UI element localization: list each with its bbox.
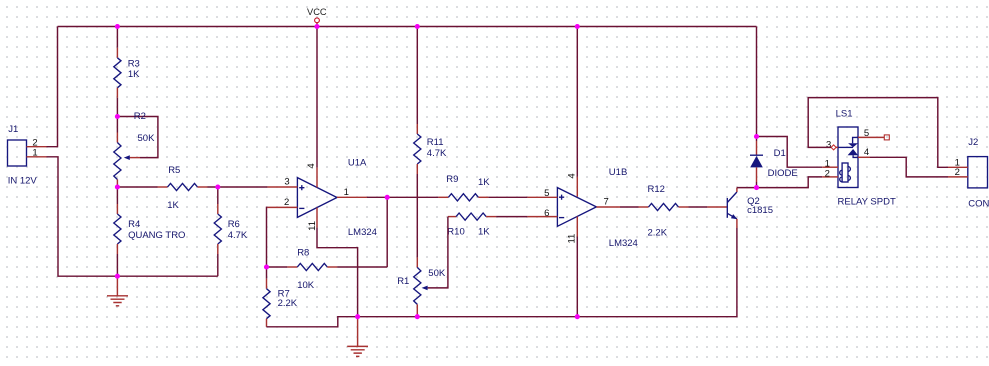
resistor R3 (114, 27, 140, 117)
svg-text:6: 6 (544, 208, 549, 219)
svg-text:2: 2 (284, 197, 289, 208)
svg-text:2.2K: 2.2K (278, 298, 298, 309)
wire U1A pin2 feedback drop (266, 207, 269, 267)
pin 4 stub relay (858, 156, 870, 158)
svg-text:U1B: U1B (609, 167, 627, 178)
svg-text:3: 3 (826, 140, 831, 151)
op-amp U1B (527, 167, 637, 249)
pin 5 stub relay (858, 136, 884, 138)
junction R4 bottom / ground (115, 274, 120, 279)
pin 1 of J2 (948, 166, 968, 168)
minus sign U1A (299, 207, 304, 209)
wire R10 left drop to R1 wiper (428, 217, 448, 288)
potentiometer R2 (114, 111, 158, 187)
wire J1 pin1 down rail and bottom-left run (47, 157, 218, 276)
base bar Q2 (726, 198, 728, 218)
wire left rail from J1 pin2 up to top rail (47, 27, 58, 147)
svg-text:LS1: LS1 (836, 108, 853, 119)
pin 6 stub U1B (527, 216, 557, 218)
pin 2 of J2 (948, 176, 968, 178)
wire Q2 collector to D1 junction (737, 187, 757, 189)
wire U1B pin11 to bottom rail (576, 237, 578, 317)
svg-text:J1: J1 (8, 124, 18, 135)
VCC power symbol (307, 7, 327, 26)
junction R1 bottom (415, 314, 420, 319)
ground left (107, 276, 128, 306)
junction R11 top (415, 24, 420, 29)
wire R3 top (116, 27, 118, 48)
svg-text:R12: R12 (648, 184, 665, 195)
svg-text:1K: 1K (128, 69, 140, 80)
op-amp U1A (267, 157, 377, 238)
svg-text:RELAY SPDT: RELAY SPDT (838, 197, 896, 208)
svg-text:2.2K: 2.2K (648, 228, 668, 239)
pin 2 stub relay (822, 176, 838, 178)
wire U1A pin4 to VCC rail (316, 27, 318, 168)
svg-text:4: 4 (864, 147, 869, 158)
wire bottom rail (358, 228, 737, 317)
junction R8 / R7 / pin2 (264, 264, 269, 269)
pin 1 output stub U1A (337, 196, 367, 198)
svg-text:R1: R1 (397, 276, 409, 287)
wire top rail drop to D1 branch (756, 27, 758, 137)
wire D1 bottom junction to relay pin2 (757, 177, 823, 188)
svg-text:1K: 1K (167, 200, 179, 211)
pin 7 output stub U1B (596, 206, 620, 208)
svg-text:11: 11 (566, 234, 577, 244)
junction R3 bottom / R2 top (115, 114, 120, 119)
contact triangle upper (848, 143, 858, 147)
junction U1A output (385, 195, 390, 200)
pin 3 stub relay (836, 146, 838, 148)
svg-text:R8: R8 (297, 247, 309, 258)
pin 11 stub U1A (316, 208, 318, 228)
pin 3 diamond (831, 145, 836, 150)
wire U1A output to junction and R9 (367, 196, 438, 198)
junction VCC (314, 24, 319, 29)
plus sign U1A (299, 185, 304, 190)
svg-text:R3: R3 (128, 58, 140, 69)
wire D1 top junction to relay pin1 (757, 137, 823, 168)
anode triangle D1 (750, 156, 763, 168)
svg-text:IN 12V: IN 12V (8, 175, 38, 186)
svg-text:5: 5 (864, 128, 869, 139)
svg-text:1K: 1K (478, 177, 490, 188)
svg-text:50K: 50K (428, 268, 446, 279)
svg-text:1K: 1K (478, 227, 490, 238)
photoresistor R4 (114, 187, 186, 276)
diode D1 (750, 137, 798, 188)
svg-text:LM324: LM324 (348, 227, 377, 238)
pin 2 of J1 (27, 146, 47, 148)
svg-text:5: 5 (544, 188, 549, 199)
svg-text:4.7K: 4.7K (228, 230, 248, 241)
pin 3 stub U1A (267, 186, 297, 188)
pin 5 open square terminal (884, 135, 889, 140)
svg-text:50K: 50K (138, 133, 156, 144)
base pin stub Q2 (707, 206, 727, 208)
resistor R10 (447, 213, 527, 238)
svg-text:U1A: U1A (348, 157, 367, 168)
armature line pin3 (838, 146, 853, 148)
svg-text:3: 3 (284, 177, 289, 188)
pin 2 stub U1A (267, 206, 297, 208)
minus sign U1B (559, 217, 564, 219)
junction R5 / R6 (215, 184, 220, 189)
svg-text:DIODE: DIODE (768, 168, 798, 179)
junction U1B pin11 bottom (575, 314, 580, 319)
contact step to pin4 (853, 155, 858, 157)
resistor R7 (263, 267, 358, 327)
wiper arrow of R2 (124, 155, 130, 160)
svg-text:2: 2 (825, 168, 830, 179)
pin 4 stub U1A (316, 167, 318, 187)
wire output junction down to R8 (386, 197, 388, 267)
svg-text:1: 1 (344, 187, 349, 198)
wire R5 to U1A pin3 (208, 186, 268, 188)
coil bumps left (840, 170, 842, 182)
resistor R11 (414, 27, 447, 175)
svg-text:R4: R4 (128, 219, 140, 230)
contact step to pin5 (853, 137, 858, 143)
wire R7 bottom loop to ground junction (267, 317, 358, 327)
relay LS1 (822, 108, 896, 207)
connector J1 (8, 124, 47, 186)
svg-text:R5: R5 (168, 165, 180, 176)
wire R3 bottom (116, 98, 118, 117)
svg-text:4: 4 (306, 163, 317, 168)
svg-text:LM324: LM324 (609, 238, 638, 249)
connector J2 (948, 137, 989, 209)
wire top VCC rail (58, 26, 757, 28)
junction D1 top (754, 134, 759, 139)
emitter diagonal Q2 (727, 213, 737, 219)
collector pin Q2 (736, 188, 738, 192)
wiper arrow of R1 (422, 286, 428, 291)
wire R2 top loop to wiper (117, 117, 157, 158)
svg-text:2: 2 (955, 167, 960, 178)
plus sign U1B (559, 195, 564, 200)
svg-text:R10: R10 (447, 227, 464, 238)
pin 5 stub U1B (527, 196, 557, 198)
svg-text:10K: 10K (297, 280, 315, 291)
wire R5 row left (117, 186, 157, 188)
body of R2 (116, 117, 118, 133)
svg-text:QUANG TRO: QUANG TRO (128, 230, 185, 241)
junction D1 bottom (754, 185, 759, 190)
wire U1B pin4 to VCC rail (576, 27, 578, 177)
resistor R12 (620, 184, 707, 238)
svg-text:c1815: c1815 (747, 205, 773, 216)
svg-text:R2: R2 (134, 111, 146, 122)
wire relay pin3 up over to J2 pin1 (808, 98, 948, 168)
svg-text:R9: R9 (446, 174, 458, 185)
coil bumps right (848, 167, 850, 181)
coil body (842, 163, 848, 182)
emitter arrowhead Q2 (731, 214, 738, 219)
svg-text:4: 4 (566, 173, 577, 178)
transistor Q2 (707, 188, 773, 228)
emitter pin Q2 (736, 219, 738, 228)
pin 4 stub U1B (576, 177, 578, 197)
svg-text:VCC: VCC (307, 7, 327, 17)
svg-text:7: 7 (604, 197, 609, 208)
contact triangle lower (848, 149, 858, 155)
ground middle (347, 317, 368, 357)
svg-text:R11: R11 (427, 137, 444, 148)
resistor R8 (267, 247, 388, 291)
svg-text:11: 11 (307, 221, 318, 231)
collector diagonal Q2 (727, 192, 737, 203)
wire relay pin4 to J2 pin2 (870, 157, 948, 177)
svg-text:D1: D1 (774, 148, 786, 159)
svg-text:1: 1 (32, 147, 37, 158)
junction U1B pin4 top (575, 24, 580, 29)
junction R3 top (115, 24, 120, 29)
pin 1 stub relay (822, 166, 838, 168)
resistor R9 (438, 174, 527, 201)
junction R2 bottom / R5 (115, 184, 120, 189)
potentiometer R1 (397, 174, 446, 317)
svg-text:R6: R6 (228, 219, 240, 230)
svg-text:4.7K: 4.7K (427, 148, 447, 159)
cathode bar D1 (750, 154, 763, 156)
svg-text:J2: J2 (968, 137, 978, 148)
junction ground middle (355, 314, 360, 319)
resistor R5 (158, 165, 208, 211)
resistor R6 (214, 187, 248, 276)
pin 1 of J1 (27, 156, 47, 158)
wire U1A pin11 to ground junction (317, 228, 358, 317)
svg-text:CON2: CON2 (968, 198, 989, 209)
pin 11 stub U1B (576, 217, 578, 237)
